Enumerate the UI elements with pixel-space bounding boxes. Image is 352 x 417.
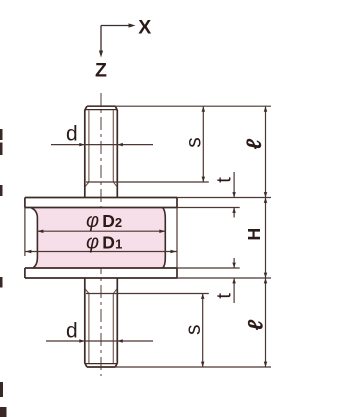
bottom stud M-thread	[85, 278, 118, 367]
dimension s bottom	[202, 294, 204, 368]
edge artifact marks	[0, 129, 7, 417]
bottom stud thread root lines	[89, 294, 113, 364]
extension line plate1 top	[177, 197, 271, 199]
dimension d bottom	[46, 340, 153, 342]
extension line stud bottom	[87, 366, 271, 368]
svg-text:s: s	[182, 324, 205, 335]
extension line stud top	[87, 105, 271, 107]
top stud thread runout	[85, 182, 117, 187]
centerline (dash-dot)	[100, 93, 102, 376]
svg-text:1: 1	[115, 237, 122, 252]
svg-text:Z: Z	[95, 60, 107, 82]
label phi-D2	[86, 210, 122, 232]
extension line plate1 bottom	[177, 207, 240, 209]
dimension s top	[202, 106, 204, 182]
extension line plate left edge	[24, 208, 26, 257]
dimension t bottom	[233, 258, 235, 303]
svg-text:t: t	[214, 177, 236, 183]
extension line plate2 bottom	[177, 277, 271, 279]
svg-text:ℓ: ℓ	[244, 320, 267, 331]
dimension H	[265, 198, 267, 279]
svg-text:ℓ: ℓ	[243, 139, 266, 150]
rubber right edge	[163, 208, 166, 268]
top stud thread root lines	[89, 110, 113, 182]
axis arrow X	[129, 23, 136, 27]
extension line plate2 top	[177, 267, 240, 269]
dimension ell top	[265, 106, 267, 197]
extension line thread start bottom	[86, 293, 209, 295]
axis arrow Z	[99, 51, 103, 58]
svg-text:φ: φ	[86, 232, 99, 254]
svg-text:2: 2	[115, 215, 122, 230]
label phi-D1	[86, 232, 122, 254]
rubber body fill	[31, 208, 165, 268]
extension line thread end top	[86, 181, 209, 183]
svg-text:D: D	[102, 211, 115, 231]
svg-text:d: d	[66, 319, 78, 342]
rubber left edge	[31, 208, 38, 268]
dimension ell bottom	[265, 278, 267, 367]
svg-text:H: H	[244, 228, 264, 241]
coordinate axes X-Z	[101, 26, 129, 52]
dimension phi-D1	[25, 251, 176, 253]
svg-text:D: D	[102, 233, 115, 253]
svg-text:t: t	[214, 293, 236, 299]
extension line plate right edge	[176, 208, 178, 269]
top stud M-thread	[85, 106, 118, 197]
dimension phi-D2	[37, 230, 165, 232]
dimension t top	[233, 172, 235, 218]
dimension d top	[51, 144, 153, 146]
svg-text:s: s	[182, 137, 205, 148]
bottom stud thread runout	[85, 289, 117, 294]
top plate	[25, 198, 177, 208]
bottom plate	[25, 268, 177, 278]
svg-text:d: d	[66, 123, 78, 146]
svg-text:φ: φ	[86, 210, 99, 232]
svg-text:X: X	[138, 17, 151, 39]
